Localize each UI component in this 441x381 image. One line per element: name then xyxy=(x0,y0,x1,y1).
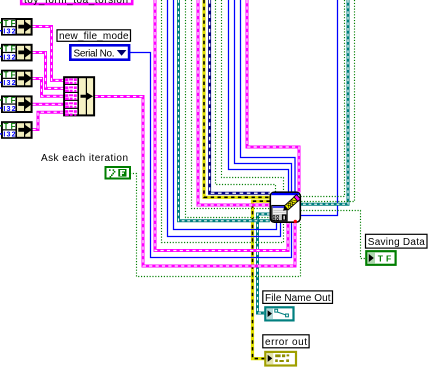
terminal T1 (TF/I32 cluster control) xyxy=(0,19,32,36)
coercion dot (red) on subVI bottom xyxy=(294,220,297,223)
terminal T3 (TF/I32 cluster control) xyxy=(0,71,32,88)
svg-text:error out: error out xyxy=(265,337,307,348)
label File Name Out xyxy=(263,291,333,304)
wire numeric from top into subVI top edge xyxy=(229,0,289,193)
wire cluster from top into subVI top edge xyxy=(247,0,299,193)
wire boolean from top into subVI top edge xyxy=(222,0,284,193)
wire numeric from top into subVI top edge xyxy=(241,0,296,193)
wire enum Serial No. to subVI bottom (blue I32) xyxy=(130,53,292,258)
label new_file_mode xyxy=(57,30,131,42)
indicator Saving Data (TF) xyxy=(366,251,395,265)
enum constant Serial No. xyxy=(70,45,129,59)
svg-text:toy_form_toa_torsion: toy_form_toa_torsion xyxy=(24,0,128,6)
label error out xyxy=(263,335,309,348)
svg-text:I32: I32 xyxy=(3,130,15,139)
wire boolean from top into subVI top edge xyxy=(216,0,276,193)
wire error in from top into subVI left edge xyxy=(204,0,270,197)
indicator File Name Out (path) xyxy=(265,307,293,320)
terminal T2 (TF/I32 cluster control) xyxy=(0,45,32,62)
svg-text:I32: I32 xyxy=(3,52,15,61)
type-def label (cut off at top) xyxy=(21,0,132,6)
indicator error out (error cluster) xyxy=(265,352,296,366)
floppy disk inside subVI icon xyxy=(272,206,287,221)
svg-text:new_file_mode: new_file_mode xyxy=(59,31,129,42)
svg-text:Ask each iteration: Ask each iteration xyxy=(41,153,128,164)
wire boolean from top right into subVI right edge xyxy=(301,0,355,202)
wire boolean from top, wraps below into subVI bottom xyxy=(162,0,284,243)
wire numeric from top right into subVI right edge xyxy=(300,0,337,216)
wire build array output to subVI bottom (array of clusters) xyxy=(95,97,295,267)
wire from terminal T5 to build array input 5 xyxy=(33,112,65,129)
wire boolean from top into subVI left edge xyxy=(192,0,270,209)
svg-text:File Name Out: File Name Out xyxy=(265,293,331,304)
wire refnum from top into subVI left edge xyxy=(210,0,270,193)
wire boolean constant (Ask each iteration) to subVI bottom xyxy=(130,174,301,277)
wire from terminal T2 to build array input 2 xyxy=(33,53,65,89)
wire cluster from top, wraps below into subVI bottom xyxy=(155,0,288,251)
svg-text:I32: I32 xyxy=(3,78,15,87)
wire boolean subVI right to Saving Data indicator xyxy=(301,211,367,259)
wire from terminal T3 to build array input 3 xyxy=(33,79,65,97)
svg-text:I32: I32 xyxy=(3,104,15,113)
svg-text:Serial No.: Serial No. xyxy=(74,48,115,59)
svg-text:I32: I32 xyxy=(3,27,15,36)
subVI Write File (pencil/floppy icon) xyxy=(270,192,300,222)
wire path from top into subVI left edge xyxy=(179,0,270,221)
wire path from top right into subVI right edge xyxy=(300,0,348,204)
terminal T5 (TF/I32 cluster control) xyxy=(0,122,32,139)
label Saving Data xyxy=(366,234,428,248)
wire from terminal T1 to build array input 1 xyxy=(33,27,65,81)
wire boolean from top right into subVI right edge xyxy=(301,0,345,197)
wire numeric from top, wraps below into subVI bottom xyxy=(174,0,277,230)
pencil on subVI icon xyxy=(281,195,300,213)
terminal T4 (TF/I32 cluster control) xyxy=(0,96,32,113)
wire cluster from top into subVI left edge xyxy=(198,0,270,205)
wire path out subVI left to File Name Out indicator xyxy=(258,214,270,313)
wire boolean from top into subVI left edge xyxy=(186,0,270,218)
wire error out subVI left to error out indicator xyxy=(253,201,270,358)
wire numeric from top into subVI top edge xyxy=(235,0,292,193)
svg-text:Saving Data: Saving Data xyxy=(368,237,425,248)
wire numeric from top, wraps below into subVI bottom xyxy=(168,0,281,237)
boolean constant F (Ask each iteration) xyxy=(106,167,131,179)
build array node xyxy=(64,77,94,116)
wire from terminal T4 to build array input 4 xyxy=(33,103,65,106)
